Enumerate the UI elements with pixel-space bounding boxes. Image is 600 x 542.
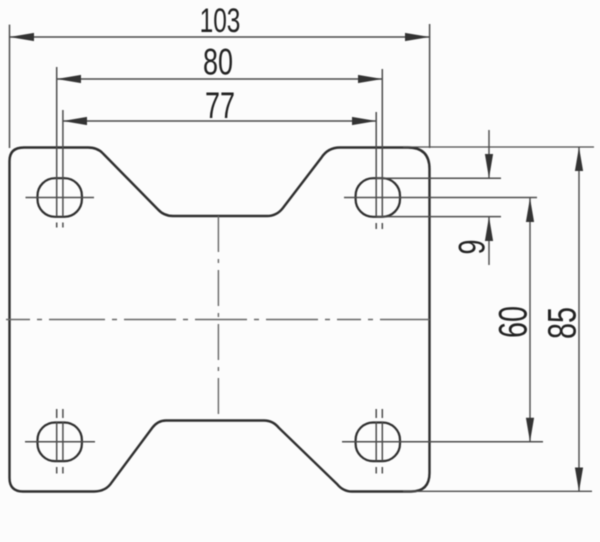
dimension 9 upper line and arrow [488,130,490,178]
dimension 103 line [10,36,430,38]
extension line 80 left through top-left hole [56,67,58,217]
plate outline [10,148,430,492]
dimension 85 arrow top [575,147,583,171]
svg-text:60: 60 [491,306,536,338]
crosshair h top-left [26,197,95,199]
dimension 60 arrow top [526,198,534,222]
extension line 103 left [9,25,11,148]
dimension 85 arrow bottom [575,468,583,492]
extension bottom edge for 85 [403,490,592,492]
crosshair v bottom-left hole [56,409,58,418]
dimension 77 arrow right [352,117,376,125]
dimension 103 arrow right [405,33,430,41]
extension line 80 right through top-right hole [381,69,383,217]
dimension 80 line [57,78,383,80]
slot bottom line for 9 [377,216,501,218]
dimension 85 line [578,147,580,492]
dimension 9 lower line and arrow [488,217,490,265]
svg-text:77: 77 [205,84,235,126]
centerline vertical [217,216,219,421]
centerline horizontal [6,319,430,321]
slot top line for 9 [377,177,501,179]
extension line 77 right through top-right hole [375,112,377,217]
dimension 77 arrow left [63,117,87,125]
svg-text:80: 80 [203,40,233,82]
svg-text:9: 9 [450,239,492,254]
hole bottom-left [38,423,82,462]
svg-text:85: 85 [540,307,585,339]
dimension 103 arrow left [10,33,35,41]
dimension 60 arrow bottom [526,418,534,442]
hole top-right [356,178,400,217]
crosshair v bottom-right hole [375,409,377,418]
hole bottom-right [356,423,400,462]
hole top-left [38,178,82,217]
dimension 77 line [63,120,376,122]
extension line 77 left through top-left hole [62,110,64,217]
svg-text:103: 103 [200,2,241,40]
dimension 80 arrow left [57,75,81,83]
crosshair h bottom-right (extends to 60 dim) [342,441,543,443]
dimension 80 arrow right [358,75,382,83]
extension top edge for 85 [403,146,594,148]
dimension 60 line [529,198,531,442]
crosshair h top-right (extends to 60 dim) [344,197,537,199]
extension line 103 right [429,24,431,148]
crosshair h bottom-left [25,441,95,443]
